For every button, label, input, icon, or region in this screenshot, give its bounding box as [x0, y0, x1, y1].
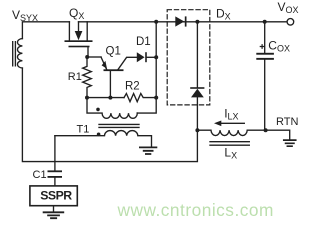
label Q1 [106, 46, 121, 58]
terminal VOX [287, 19, 294, 26]
junction dot rail R2 [154, 96, 158, 100]
wire: control bottom rail [87, 97, 124, 99]
label RTN [276, 116, 298, 128]
junction dot Q1 base [108, 96, 112, 100]
svg-text:ILX: ILX [224, 106, 238, 121]
mosfet QX arrow [78, 22, 80, 32]
label R1 [68, 71, 82, 83]
svg-text:T1: T1 [77, 124, 90, 136]
label T1 [77, 124, 90, 136]
wire: D1 cathode to rail [147, 56, 156, 58]
wire: Q1 base lead [109, 71, 111, 98]
inductor primary winding [17, 39, 22, 68]
label VOX [278, 0, 299, 15]
label DX [216, 7, 231, 22]
capacitor COX [256, 53, 274, 55]
inductor LX [197, 130, 265, 135]
ground RTN [284, 140, 296, 146]
watermark [117, 200, 274, 220]
label QX [69, 6, 84, 21]
diode DX (in box, top) [175, 16, 184, 26]
wire: C1 to SSPR [54, 178, 56, 186]
phase dot T1 bottom [97, 133, 101, 137]
junction dot rail D1 [154, 55, 158, 59]
transformer T1 bottom winding [55, 131, 152, 147]
label VSYX [12, 8, 38, 23]
wire: right control rail [155, 22, 157, 98]
svg-text:DX: DX [216, 7, 231, 22]
resistor R1 [83, 57, 92, 98]
diode freewheel (in box, bottom) [196, 22, 198, 87]
svg-text:COX: COX [268, 38, 290, 53]
wire: COX bottom [264, 60, 266, 130]
mosfet QX source lead [68, 22, 70, 41]
label C1 [33, 169, 47, 181]
dashed box [167, 10, 210, 105]
svg-text:D1: D1 [136, 36, 151, 48]
wire: SSPR to ground [53, 206, 55, 212]
junction dot R1 bottom [85, 96, 89, 100]
phase dot T1 top [96, 108, 100, 112]
wire: top rail right [79, 21, 287, 23]
wire: VSYX top [22, 22, 69, 39]
mosfet QX drain lead [86, 22, 88, 41]
svg-text:LX: LX [224, 145, 237, 160]
label COX [268, 38, 290, 53]
svg-text:SSPR: SSPR [40, 189, 72, 203]
resistor R2 [124, 94, 156, 102]
junction dot switch node [195, 20, 199, 24]
ground T1 [140, 147, 157, 154]
svg-text:QX: QX [69, 6, 84, 21]
label LX [224, 145, 237, 160]
svg-text:RTN: RTN [276, 116, 298, 128]
wire: COX top [264, 22, 266, 53]
wire: node A to Q1 emitter [87, 56, 101, 58]
svg-text:VOX: VOX [278, 0, 299, 15]
current arrow ILX [220, 122, 245, 124]
junction dot LX left [195, 128, 199, 132]
svg-text:R1: R1 [68, 71, 82, 83]
inductor LX core [210, 142, 249, 146]
junction dot LX right [264, 128, 268, 132]
svg-text:www.cntronics.com: www.cntronics.com [117, 200, 274, 220]
junction dot COX top [263, 20, 267, 24]
transistor Q1 emitter [101, 57, 107, 70]
wire: gate lead [87, 47, 89, 57]
wire: RTN [266, 130, 290, 139]
wire: left rail and bottom rail [22, 68, 197, 162]
mosfet QX gate bar [69, 46, 90, 48]
label D1 [136, 36, 151, 48]
label R2 [125, 81, 140, 93]
transformer T1 top winding [87, 98, 137, 119]
transformer T1 core [99, 124, 139, 127]
plus sign [260, 45, 264, 49]
svg-text:VSYX: VSYX [12, 8, 38, 23]
block SSPR [30, 186, 77, 206]
ground SSPR [44, 212, 64, 218]
wire: C1 branch [54, 136, 56, 171]
mosfet QX channel bar [65, 40, 93, 42]
svg-text:C1: C1 [33, 169, 47, 181]
capacitor C1 [48, 170, 63, 172]
label ILX [224, 106, 238, 121]
svg-text:Q1: Q1 [106, 46, 121, 58]
transistor Q1 base bar [104, 69, 124, 71]
transformer core (input) [13, 42, 16, 66]
node A junction dot [85, 55, 89, 59]
wire: rail step to T1 secondary top [137, 98, 156, 114]
diode D1 [137, 52, 145, 62]
transistor Q1 collector [118, 57, 137, 69]
junction dot rail top [154, 20, 158, 24]
svg-text:R2: R2 [125, 81, 140, 93]
